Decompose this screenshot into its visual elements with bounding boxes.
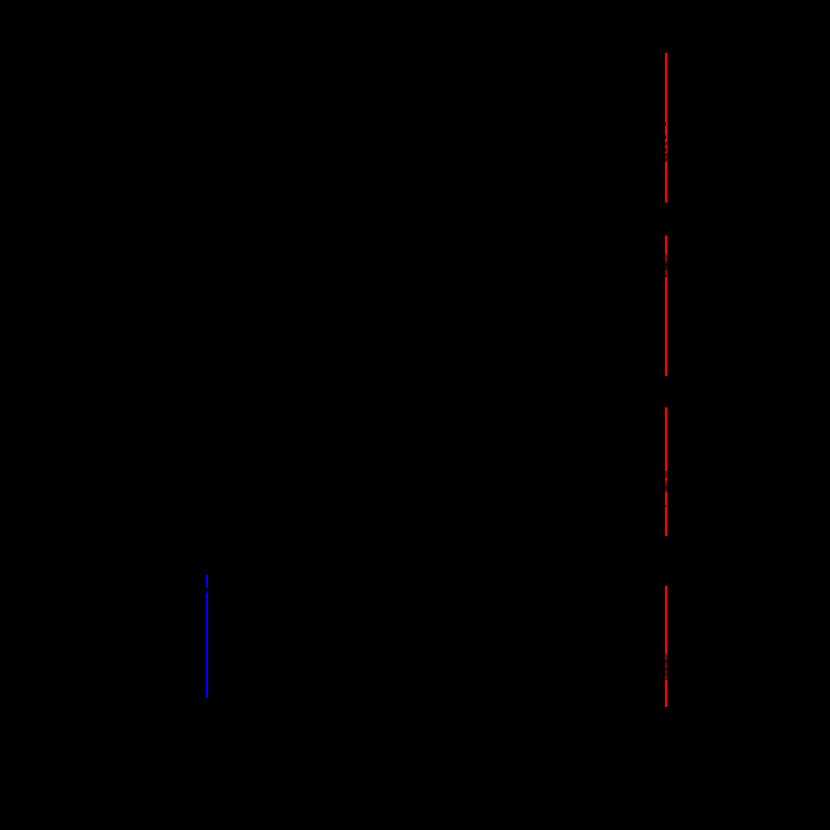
wire: red right-branch segment 2	[665, 236, 667, 376]
voltage source V2 (occupies gap in red wire)	[650, 377, 682, 407]
voltage source V3 (occupies gap in red wire)	[650, 537, 682, 586]
resistor R3 (black zigzag overlapping red wire)	[664, 471, 667, 507]
wire: red right-branch segment 3	[665, 407, 667, 536]
wire: red right-branch segment 1 (node A to R1 region)	[665, 53, 667, 203]
resistor R4 (black zigzag overlapping red wire)	[665, 654, 668, 681]
node B: black junction mark overlapping blue wire	[206, 588, 209, 593]
wire: red right-branch segment 4	[665, 586, 667, 707]
resistor R1 (black zigzag overlapping red wire)	[664, 122, 667, 162]
resistor R2 (black zigzag overlapping red wire)	[664, 255, 667, 278]
wire: blue left-branch vertical wire	[206, 575, 208, 698]
voltage source V1 (occupies gap in red wire)	[650, 204, 682, 235]
